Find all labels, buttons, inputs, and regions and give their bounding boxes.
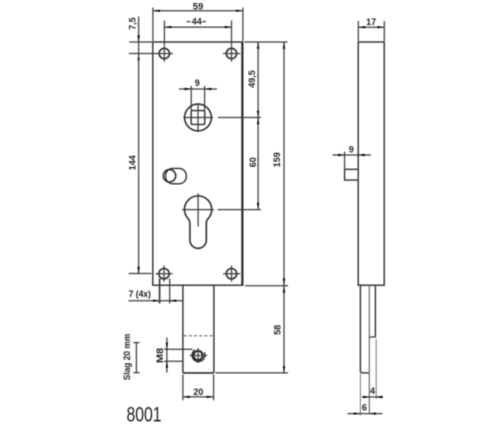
svg-text:20: 20 <box>193 387 203 397</box>
euro cylinder crosshair <box>182 209 214 211</box>
hole bottom-left <box>156 266 173 282</box>
right side extension lines <box>216 42 289 373</box>
svg-text:M8: M8 <box>156 347 166 363</box>
hole top-right <box>223 45 240 61</box>
slag 20mm travel bar <box>122 333 140 380</box>
dim 44 <box>164 16 231 45</box>
plate right edge (thick) <box>241 42 243 285</box>
dim 7,5 (top-left) <box>128 17 157 61</box>
svg-text:8001: 8001 <box>127 402 162 426</box>
svg-text:17: 17 <box>366 17 376 27</box>
hole bottom-right <box>223 266 240 282</box>
slide plate (side) <box>374 285 376 337</box>
extension below slide plate <box>375 339 377 399</box>
svg-text:159: 159 <box>272 152 282 167</box>
extension below bolt front <box>359 374 361 416</box>
M8 threaded hole <box>190 348 208 363</box>
bolt bar (front) <box>183 285 214 373</box>
svg-text:59: 59 <box>193 2 204 13</box>
svg-text:9: 9 <box>195 78 200 88</box>
dim 4 (side bottom) <box>362 386 383 398</box>
svg-text:44: 44 <box>192 16 202 26</box>
svg-text:144: 144 <box>128 155 138 170</box>
svg-text:Slag 20 mm: Slag 20 mm <box>122 333 132 380</box>
dim 9 (square spindle) <box>179 78 217 125</box>
bolt retracted position (dashed) <box>184 335 214 337</box>
svg-text:9: 9 <box>349 145 354 155</box>
bolt bar (side): back edge / extension <box>368 285 370 413</box>
side body <box>358 42 384 285</box>
dim 20 (bolt width) <box>183 375 214 401</box>
euro profile cylinder hole <box>185 196 212 248</box>
slide plate bottom step <box>370 336 376 338</box>
dim 6 (side bottom) <box>348 403 383 415</box>
svg-text:7,5: 7,5 <box>128 17 138 30</box>
latch protrusion (side) <box>345 169 359 180</box>
lock plate outline <box>153 42 243 285</box>
dim M8 <box>156 338 193 373</box>
dim 9 (side latch) <box>333 145 372 169</box>
svg-text:60: 60 <box>248 157 258 167</box>
dim 49,5 <box>247 42 259 118</box>
square spindle hole <box>183 104 213 133</box>
svg-text:7 (4x): 7 (4x) <box>129 289 151 299</box>
svg-text:4: 4 <box>370 386 375 396</box>
dim 144 (left) <box>128 54 152 274</box>
dim 159 <box>272 42 285 285</box>
svg-text:6: 6 <box>362 403 367 413</box>
dim 60 <box>248 118 259 210</box>
svg-text:49,5: 49,5 <box>247 70 257 88</box>
dim 59 (top) <box>153 2 243 41</box>
dim 58 <box>273 285 286 373</box>
latch window (circle + slot) <box>163 168 186 183</box>
dim 7(4x) hole size <box>129 279 184 304</box>
hole top-left <box>156 45 173 61</box>
bolt bar (side): front edge <box>360 285 368 373</box>
svg-text:58: 58 <box>273 325 283 335</box>
dim 17 (side top) <box>358 17 384 41</box>
